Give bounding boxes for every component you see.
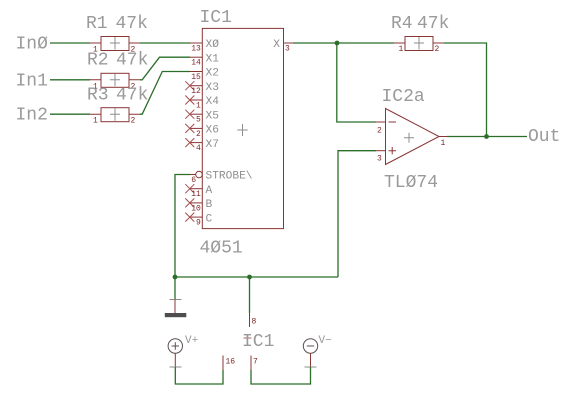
- wire R2 to IC1 pin 14: [140, 57, 190, 80]
- wire In0 to R1: [50, 42, 90, 44]
- svg-text:1: 1: [196, 102, 201, 111]
- wire ground rail to IC1 pin 8: [249, 277, 251, 313]
- svg-text:R1: R1: [86, 14, 108, 34]
- svg-text:STROBE\: STROBE\: [206, 171, 253, 183]
- svg-text:2: 2: [131, 117, 136, 126]
- IC1 pin 6 STROBE inverted: [190, 171, 253, 185]
- IC1 pin 9 C unconnected: [185, 213, 212, 228]
- svg-text:3: 3: [377, 155, 382, 164]
- svg-text:5: 5: [196, 116, 201, 125]
- svg-text:7: 7: [253, 358, 258, 367]
- wire feedback node down to op-amp inverting input: [337, 43, 376, 122]
- svg-text:X2: X2: [206, 68, 219, 80]
- svg-text:Out: Out: [528, 127, 560, 147]
- wire op-amp output to Out: [447, 136, 527, 138]
- IC2a pin 1 output: [439, 137, 447, 149]
- IC1 pin 12 X3 unconnected: [185, 81, 219, 96]
- R4 pin 2 number: [435, 45, 440, 54]
- IC1 pin 14 X1: [190, 53, 219, 67]
- R3 value 47k: [116, 86, 148, 106]
- wire R3 to IC1 pin 15: [140, 72, 190, 115]
- svg-text:12: 12: [191, 87, 201, 96]
- node V+: [185, 335, 198, 347]
- svg-text:X3: X3: [206, 82, 219, 94]
- svg-text:11: 11: [191, 190, 201, 199]
- IC1 pin 2 X6 unconnected: [185, 124, 219, 139]
- R3 pin 1 number: [93, 117, 98, 126]
- IC1 pin 11 A unconnected: [185, 184, 212, 199]
- svg-text:V−: V−: [319, 335, 332, 347]
- IC1 power gate pin 8 VSS: [250, 313, 257, 327]
- svg-text:V+: V+: [185, 335, 198, 347]
- IC1 power gate label: [242, 332, 274, 352]
- svg-text:X4: X4: [206, 96, 220, 108]
- svg-text:IC1: IC1: [242, 332, 274, 352]
- IC2a name label: [382, 87, 425, 107]
- wire X output to R4: [293, 42, 394, 44]
- R3 pin 2 number: [131, 117, 136, 126]
- IC1 pin 5 X5 unconnected: [185, 110, 219, 125]
- IC1 power gate pin 16 VDD: [223, 356, 235, 371]
- svg-text:X6: X6: [206, 125, 219, 137]
- svg-text:2: 2: [196, 130, 201, 139]
- svg-text:X1: X1: [206, 53, 220, 65]
- svg-text:R4: R4: [391, 14, 413, 34]
- resistor R2: [90, 73, 140, 87]
- IC2a value TL074: [384, 173, 438, 193]
- svg-text:9: 9: [196, 219, 201, 228]
- svg-text:R2: R2: [87, 51, 109, 71]
- svg-text:X7: X7: [206, 139, 219, 151]
- wire R1 to IC1 pin 13: [140, 42, 190, 44]
- resistor R3: [90, 108, 140, 122]
- node Out: [528, 127, 560, 147]
- wire STROBE to ground rail: [175, 175, 190, 278]
- svg-text:IC1: IC1: [200, 8, 232, 28]
- svg-text:13: 13: [191, 45, 201, 54]
- svg-text:InØ: InØ: [16, 35, 49, 55]
- R2 value 47k: [116, 51, 148, 71]
- R1 pin 1 number: [93, 46, 98, 55]
- wire In1 to R2: [50, 79, 90, 81]
- wire V+ to pin 16: [175, 367, 223, 384]
- svg-text:XØ: XØ: [206, 39, 220, 51]
- svg-text:4Ø51: 4Ø51: [200, 239, 243, 259]
- svg-text:IC2a: IC2a: [382, 87, 425, 107]
- R4 name label: [391, 14, 413, 34]
- svg-text:4: 4: [196, 144, 201, 153]
- svg-text:47k: 47k: [116, 51, 148, 71]
- wire R4 to output node: [444, 43, 487, 137]
- svg-text:47k: 47k: [116, 14, 148, 34]
- IC1 pin 3 X output: [273, 39, 293, 53]
- IC2a pin 3 non-inverting input: [376, 151, 386, 164]
- node V-: [319, 335, 332, 347]
- resistor R1: [90, 37, 140, 51]
- junction feedback node: [335, 41, 340, 46]
- R3 name label: [87, 86, 109, 106]
- node In1: [16, 71, 48, 91]
- svg-text:1: 1: [93, 117, 98, 126]
- svg-text:10: 10: [191, 204, 201, 213]
- IC1 pin 13 X0: [190, 39, 219, 53]
- svg-text:X5: X5: [206, 110, 219, 122]
- svg-text:1: 1: [441, 139, 446, 148]
- R2 pin 2 number: [131, 82, 136, 91]
- R1 pin 2 number: [131, 46, 136, 55]
- R2 pin 1 number: [93, 82, 98, 91]
- junction ground rail middle: [247, 275, 252, 280]
- svg-text:1: 1: [399, 45, 404, 54]
- wire ground rail to GND symbol: [174, 277, 176, 300]
- svg-text:TLØ74: TLØ74: [384, 173, 438, 193]
- svg-text:2: 2: [377, 127, 382, 136]
- junction output node: [484, 134, 489, 139]
- svg-text:In2: In2: [16, 106, 48, 126]
- IC1 pin 1 X4 unconnected: [185, 96, 219, 111]
- wire V- to pin 7: [251, 367, 311, 384]
- IC1 pin 15 X2: [190, 68, 219, 82]
- op-amp IC2a: [386, 109, 440, 165]
- node In0: [16, 35, 49, 55]
- R4 value 47k: [417, 14, 449, 34]
- svg-text:B: B: [206, 199, 213, 211]
- IC1 pin 10 B unconnected: [185, 198, 212, 213]
- wire In2 to R3: [50, 113, 90, 115]
- IC1 power gate pin 7 VEE: [251, 356, 258, 371]
- svg-text:15: 15: [191, 73, 201, 82]
- svg-text:2: 2: [435, 45, 440, 54]
- svg-text:X: X: [273, 39, 280, 51]
- multiplexer IC1: [202, 28, 283, 228]
- svg-text:C: C: [206, 213, 213, 225]
- svg-text:8: 8: [252, 318, 257, 327]
- IC2a pin 2 inverting input: [376, 122, 386, 136]
- supply V-: [303, 339, 317, 367]
- svg-text:14: 14: [191, 59, 201, 68]
- R2 name label: [87, 51, 109, 71]
- ground: [165, 300, 187, 318]
- R1 value 47k: [116, 14, 148, 34]
- svg-text:47k: 47k: [116, 86, 148, 106]
- wire ground rail: [175, 276, 338, 278]
- IC1 pin 4 X7 unconnected: [185, 138, 219, 153]
- svg-text:A: A: [206, 185, 213, 197]
- svg-text:16: 16: [226, 358, 236, 367]
- supply V+: [168, 339, 182, 367]
- svg-text:47k: 47k: [417, 14, 449, 34]
- svg-text:6: 6: [191, 176, 196, 185]
- node In2: [16, 106, 48, 126]
- IC1 value 4051: [200, 239, 243, 259]
- junction ground rail left: [173, 275, 178, 280]
- svg-text:In1: In1: [16, 71, 48, 91]
- R4 pin 1 number: [399, 45, 404, 54]
- R1 name label: [86, 14, 108, 34]
- svg-text:3: 3: [285, 45, 290, 54]
- resistor R4: [394, 37, 444, 51]
- wire non-inverting input to ground rail: [338, 151, 376, 277]
- IC1 name label: [200, 8, 232, 28]
- svg-text:R3: R3: [87, 86, 109, 106]
